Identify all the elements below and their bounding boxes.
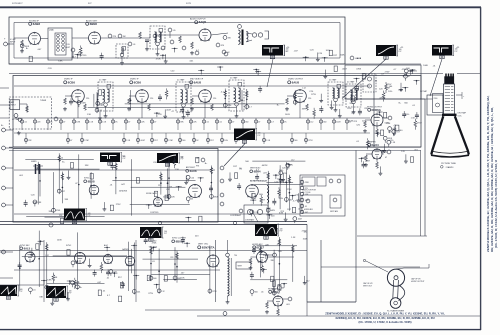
svg-text:SYNC: SYNC xyxy=(66,245,72,247)
svg-text:SD NET MODULAT: SD NET MODULAT xyxy=(250,180,268,183)
svg-text:120: 120 xyxy=(213,98,216,100)
svg-text:560: 560 xyxy=(255,292,258,294)
svg-text:COIL: COIL xyxy=(66,44,70,46)
svg-text:275V: 275V xyxy=(385,72,390,74)
svg-text:5278: 5278 xyxy=(186,3,192,5)
svg-text:.01: .01 xyxy=(33,290,36,292)
svg-text:.0047: .0047 xyxy=(140,140,145,142)
svg-text:.0047: .0047 xyxy=(65,47,71,49)
svg-text:10%: 10% xyxy=(279,198,283,200)
svg-text:25 CYCLE: 25 CYCLE xyxy=(302,192,311,194)
svg-text:HORIZ OUTPUT: HORIZ OUTPUT xyxy=(367,106,383,108)
svg-text:L12: L12 xyxy=(276,293,279,295)
svg-text:ZENITH MODELS X2320E, EI ; X23: ZENITH MODELS X2320E, EI ; X2330E, EU, Q… xyxy=(325,312,445,316)
svg-text:6AL5: 6AL5 xyxy=(24,246,31,250)
svg-text:2240: 2240 xyxy=(434,98,438,100)
svg-text:100K: 100K xyxy=(57,240,62,242)
svg-text:560: 560 xyxy=(323,122,326,124)
svg-text:10%: 10% xyxy=(347,108,351,110)
svg-text:100K: 100K xyxy=(423,65,428,67)
svg-text:R17: R17 xyxy=(154,140,157,142)
svg-text:275V: 275V xyxy=(280,181,285,183)
svg-text:47: 47 xyxy=(258,122,260,124)
svg-text:6AU8: 6AU8 xyxy=(292,80,300,84)
svg-text:.047: .047 xyxy=(181,273,185,275)
svg-text:100K: 100K xyxy=(340,54,345,56)
svg-text:AGC: AGC xyxy=(104,244,109,247)
svg-text:C20: C20 xyxy=(60,157,63,159)
svg-text:6.8K: 6.8K xyxy=(375,117,380,119)
svg-text:4.5 TRAP: 4.5 TRAP xyxy=(177,79,185,82)
svg-text:2.2M: 2.2M xyxy=(55,293,60,295)
svg-text:560: 560 xyxy=(245,122,248,124)
svg-text:L12: L12 xyxy=(161,291,164,293)
svg-text:6CB6: 6CB6 xyxy=(68,80,76,84)
svg-text:SYNC: SYNC xyxy=(84,178,90,180)
svg-text:40MFD: 40MFD xyxy=(31,161,37,163)
svg-text:140V: 140V xyxy=(271,210,276,212)
svg-text:4.5 TRAP: 4.5 TRAP xyxy=(99,79,107,82)
svg-text:T28: T28 xyxy=(180,157,183,159)
svg-text:560: 560 xyxy=(294,140,297,142)
svg-text:10%: 10% xyxy=(224,140,228,142)
svg-text:1.5K: 1.5K xyxy=(291,237,296,239)
svg-text:223: 223 xyxy=(170,257,173,259)
svg-text:R17: R17 xyxy=(210,140,213,142)
svg-text:1M: 1M xyxy=(123,36,126,38)
svg-text:INPUT: INPUT xyxy=(10,41,16,43)
svg-text:6AU8: 6AU8 xyxy=(190,169,197,173)
svg-text:VERT: VERT xyxy=(238,266,242,268)
svg-text:6AU8: 6AU8 xyxy=(194,80,202,84)
svg-text:275V: 275V xyxy=(311,94,316,96)
svg-text:+35: +35 xyxy=(456,47,459,49)
svg-text:5278 B927: 5278 B927 xyxy=(12,3,23,5)
svg-text:100K: 100K xyxy=(303,239,308,241)
svg-text:120: 120 xyxy=(150,98,153,100)
svg-text:2.2M: 2.2M xyxy=(254,212,259,214)
svg-text:.001: .001 xyxy=(286,304,290,306)
svg-text:4.5 TRAP: 4.5 TRAP xyxy=(347,81,355,84)
svg-text:(Ch. 17X30, U; 17X32, U & Audi: (Ch. 17X30, U; 17X32, U & Audio Ch. 5X05… xyxy=(494,160,498,248)
svg-text:47: 47 xyxy=(385,157,387,159)
svg-text:120: 120 xyxy=(86,98,89,100)
svg-text:6AB8: 6AB8 xyxy=(33,22,41,26)
svg-text:SYNC CLIPPER: SYNC CLIPPER xyxy=(172,238,187,240)
svg-text:140V: 140V xyxy=(336,122,341,124)
svg-text:22K: 22K xyxy=(278,251,282,253)
svg-text:.0047: .0047 xyxy=(166,110,172,112)
svg-text:275V: 275V xyxy=(148,293,153,295)
svg-text:47: 47 xyxy=(63,122,65,124)
svg-text:6.8K: 6.8K xyxy=(349,120,354,122)
svg-text:2.2M: 2.2M xyxy=(386,123,391,125)
svg-text:10%: 10% xyxy=(259,194,263,196)
svg-text:1.5K: 1.5K xyxy=(87,114,92,116)
svg-text:275V: 275V xyxy=(116,204,121,206)
svg-text:INPUT: INPUT xyxy=(11,105,16,107)
svg-text:470K: 470K xyxy=(403,76,408,78)
svg-text:.01: .01 xyxy=(219,122,222,124)
svg-text:33K: 33K xyxy=(349,103,353,105)
svg-text:NOISE GATE: NOISE GATE xyxy=(146,192,158,195)
svg-text:PICTURE TUBE: PICTURE TUBE xyxy=(441,163,456,165)
svg-text:47: 47 xyxy=(408,76,410,78)
svg-text:560: 560 xyxy=(182,140,185,142)
svg-text:TUNER: TUNER xyxy=(40,100,47,102)
svg-text:10%: 10% xyxy=(388,91,392,93)
svg-text:L12: L12 xyxy=(310,122,313,124)
svg-text:.01: .01 xyxy=(305,206,308,208)
svg-text:1.5K: 1.5K xyxy=(295,194,300,196)
svg-text:6AU8: 6AU8 xyxy=(356,57,362,60)
svg-text:.047: .047 xyxy=(205,102,209,104)
svg-text:33K: 33K xyxy=(65,199,69,201)
svg-text:X2335EQ, EU, R, RU, X2347E, EU: X2335EQ, EU, R, RU, X2347E, EU, R, RU, X… xyxy=(335,316,434,320)
svg-text:33K: 33K xyxy=(85,165,89,167)
svg-text:470K: 470K xyxy=(156,58,161,60)
svg-text:470K: 470K xyxy=(356,69,361,71)
svg-text:1.5K: 1.5K xyxy=(398,90,403,92)
svg-text:275V: 275V xyxy=(212,291,217,293)
svg-text:6.8K: 6.8K xyxy=(47,280,52,282)
svg-text:560: 560 xyxy=(153,278,156,280)
svg-text:275V: 275V xyxy=(302,230,307,232)
svg-text:1.5K: 1.5K xyxy=(175,169,180,171)
svg-text:4.7: 4.7 xyxy=(271,122,274,124)
svg-text:6AQ5: 6AQ5 xyxy=(199,20,207,24)
svg-text:47: 47 xyxy=(154,122,156,124)
svg-text:4.5 TRAP: 4.5 TRAP xyxy=(329,79,337,82)
svg-text:47: 47 xyxy=(277,244,279,246)
svg-text:.01: .01 xyxy=(206,122,209,124)
svg-text:.001: .001 xyxy=(137,291,141,293)
svg-text:.01: .01 xyxy=(24,122,27,124)
svg-text:33K: 33K xyxy=(302,109,306,111)
svg-text:CONTRAST: CONTRAST xyxy=(230,214,242,217)
svg-text:33K: 33K xyxy=(39,297,43,299)
svg-text:47: 47 xyxy=(70,140,72,142)
svg-text:.01: .01 xyxy=(99,110,102,112)
svg-text:+10: +10 xyxy=(286,47,289,49)
svg-text:.0047: .0047 xyxy=(365,160,371,162)
svg-text:47: 47 xyxy=(232,122,234,124)
svg-text:275V: 275V xyxy=(417,123,422,125)
svg-text:QUAD: QUAD xyxy=(49,29,55,32)
svg-text:470K: 470K xyxy=(214,196,219,198)
svg-text:100K: 100K xyxy=(180,277,185,279)
svg-text:GATED: GATED xyxy=(122,248,129,251)
svg-text:223: 223 xyxy=(158,185,161,187)
svg-text:.0047: .0047 xyxy=(297,219,302,221)
svg-text:2.2M: 2.2M xyxy=(84,140,89,142)
svg-text:47: 47 xyxy=(238,140,240,142)
svg-text:21AMP4: 21AMP4 xyxy=(446,166,455,169)
svg-text:2.2M: 2.2M xyxy=(168,140,173,142)
svg-text:6.8K: 6.8K xyxy=(58,61,63,63)
svg-text:6CB6: 6CB6 xyxy=(134,80,142,84)
svg-text:470K: 470K xyxy=(402,69,407,71)
svg-text:470K: 470K xyxy=(152,242,157,244)
svg-text:470K: 470K xyxy=(122,191,127,193)
svg-text:22K: 22K xyxy=(364,108,368,110)
svg-text:R17: R17 xyxy=(396,132,399,134)
svg-text:HORIZ AFC: HORIZ AFC xyxy=(252,243,263,246)
svg-text:(Ch. 17X30, U; 17X32, U & Audi: (Ch. 17X30, U; 17X32, U & Audio Ch. 5X05… xyxy=(358,320,411,324)
svg-text:ANT MULT: ANT MULT xyxy=(186,166,196,169)
svg-text:T30: T30 xyxy=(234,255,237,257)
svg-text:470K: 470K xyxy=(352,92,357,94)
svg-text:2W: 2W xyxy=(228,38,231,40)
svg-text:HORIZ OUTPUT: HORIZ OUTPUT xyxy=(411,281,425,283)
svg-text:6BN6: 6BN6 xyxy=(90,22,98,26)
svg-text:T27: T27 xyxy=(122,156,125,158)
svg-text:ION TRAP: ION TRAP xyxy=(458,112,467,115)
svg-text:R17: R17 xyxy=(49,287,52,289)
svg-text:680: 680 xyxy=(100,103,103,105)
svg-text:4.7: 4.7 xyxy=(290,165,293,167)
svg-text:CONTROL: CONTROL xyxy=(78,55,87,57)
svg-text:R17: R17 xyxy=(62,191,65,193)
svg-text:CAP OF V8: CAP OF V8 xyxy=(363,282,372,285)
svg-text:140V: 140V xyxy=(81,103,86,105)
svg-text:470K: 470K xyxy=(56,210,61,212)
svg-text:VERT OUT: VERT OUT xyxy=(363,286,373,288)
svg-text:47: 47 xyxy=(128,122,130,124)
svg-text:223: 223 xyxy=(37,122,40,124)
svg-text:4.7: 4.7 xyxy=(249,107,252,109)
svg-text:1.5K: 1.5K xyxy=(411,117,416,119)
svg-text:10%: 10% xyxy=(405,114,409,116)
svg-text:4.5 TRAP: 4.5 TRAP xyxy=(230,77,238,80)
svg-text:6SN7GTA: 6SN7GTA xyxy=(202,245,215,249)
svg-text:VERT ADJ: VERT ADJ xyxy=(330,210,338,213)
svg-text:+35: +35 xyxy=(400,47,403,49)
svg-text:CONTRAST: CONTRAST xyxy=(245,219,254,222)
svg-text:470K: 470K xyxy=(388,138,393,140)
svg-text:275V: 275V xyxy=(308,140,313,142)
svg-text:20 TRAP: 20 TRAP xyxy=(420,90,428,93)
svg-text:120: 120 xyxy=(308,98,311,100)
svg-text:CONTROL: CONTROL xyxy=(150,212,159,214)
svg-text:140V: 140V xyxy=(285,114,290,116)
svg-text:COIL: COIL xyxy=(458,116,462,118)
svg-text:CAP OF V8: CAP OF V8 xyxy=(411,278,420,281)
svg-text:HORIZ ADJ: HORIZ ADJ xyxy=(304,208,313,211)
svg-text:C20: C20 xyxy=(191,177,194,179)
